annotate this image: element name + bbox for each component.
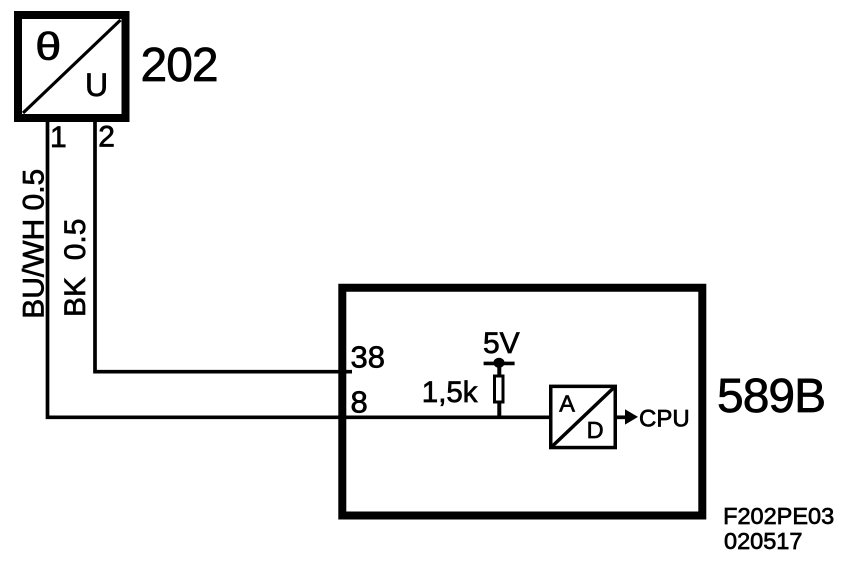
svg-text:1: 1 bbox=[50, 121, 67, 154]
svg-text:BK 0.5: BK 0.5 bbox=[59, 219, 92, 317]
svg-text:5V: 5V bbox=[483, 327, 520, 360]
svg-text:D: D bbox=[587, 417, 604, 443]
svg-text:BU/WH 0.5: BU/WH 0.5 bbox=[17, 169, 50, 319]
svg-text:202: 202 bbox=[141, 39, 218, 92]
svg-text:589B: 589B bbox=[717, 370, 825, 423]
svg-text:2: 2 bbox=[98, 120, 115, 153]
svg-text:U: U bbox=[85, 67, 108, 103]
svg-text:8: 8 bbox=[351, 385, 368, 420]
svg-text:CPU: CPU bbox=[639, 406, 690, 433]
svg-text:38: 38 bbox=[351, 340, 385, 375]
svg-text:A: A bbox=[559, 391, 575, 417]
svg-text:θ: θ bbox=[35, 26, 61, 69]
svg-text:1,5k: 1,5k bbox=[422, 376, 478, 409]
svg-text:020517: 020517 bbox=[724, 528, 802, 554]
svg-text:F202PE03: F202PE03 bbox=[723, 503, 834, 529]
